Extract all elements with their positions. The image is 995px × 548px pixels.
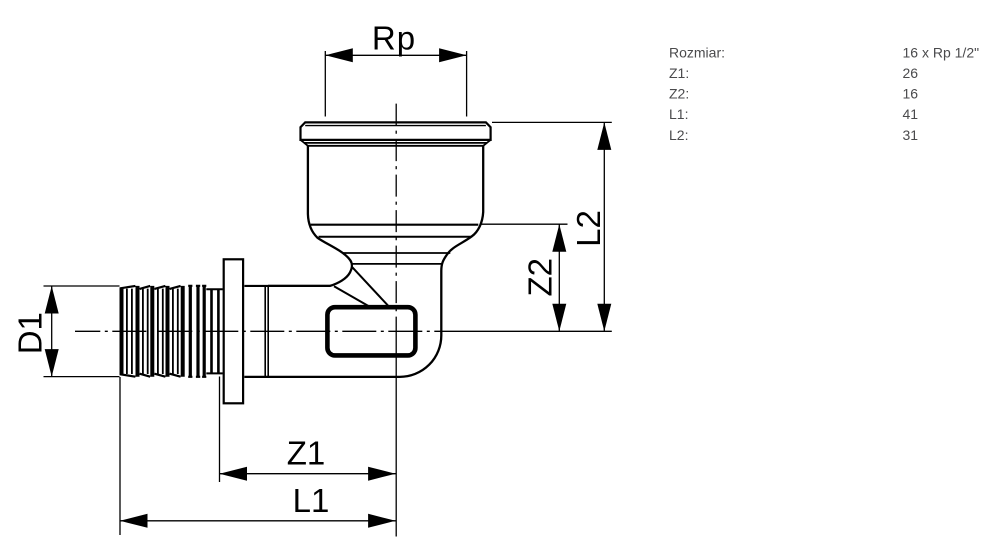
svg-text:16: 16 bbox=[903, 86, 919, 102]
svg-text:L1:: L1: bbox=[669, 106, 688, 122]
svg-text:26: 26 bbox=[903, 65, 919, 81]
svg-text:Z2:: Z2: bbox=[669, 86, 689, 102]
svg-text:31: 31 bbox=[903, 127, 919, 143]
svg-text:L2:: L2: bbox=[669, 127, 688, 143]
svg-text:Z2: Z2 bbox=[521, 258, 558, 297]
svg-text:L1: L1 bbox=[293, 482, 330, 519]
svg-text:41: 41 bbox=[903, 106, 919, 122]
svg-text:Rozmiar:: Rozmiar: bbox=[669, 44, 725, 60]
svg-text:Rp: Rp bbox=[372, 19, 416, 56]
svg-text:L2: L2 bbox=[570, 210, 607, 247]
svg-text:16 x Rp 1/2": 16 x Rp 1/2" bbox=[903, 44, 980, 60]
svg-text:D1: D1 bbox=[12, 312, 49, 354]
svg-text:Z1: Z1 bbox=[287, 434, 326, 471]
svg-text:Z1:: Z1: bbox=[669, 65, 689, 81]
